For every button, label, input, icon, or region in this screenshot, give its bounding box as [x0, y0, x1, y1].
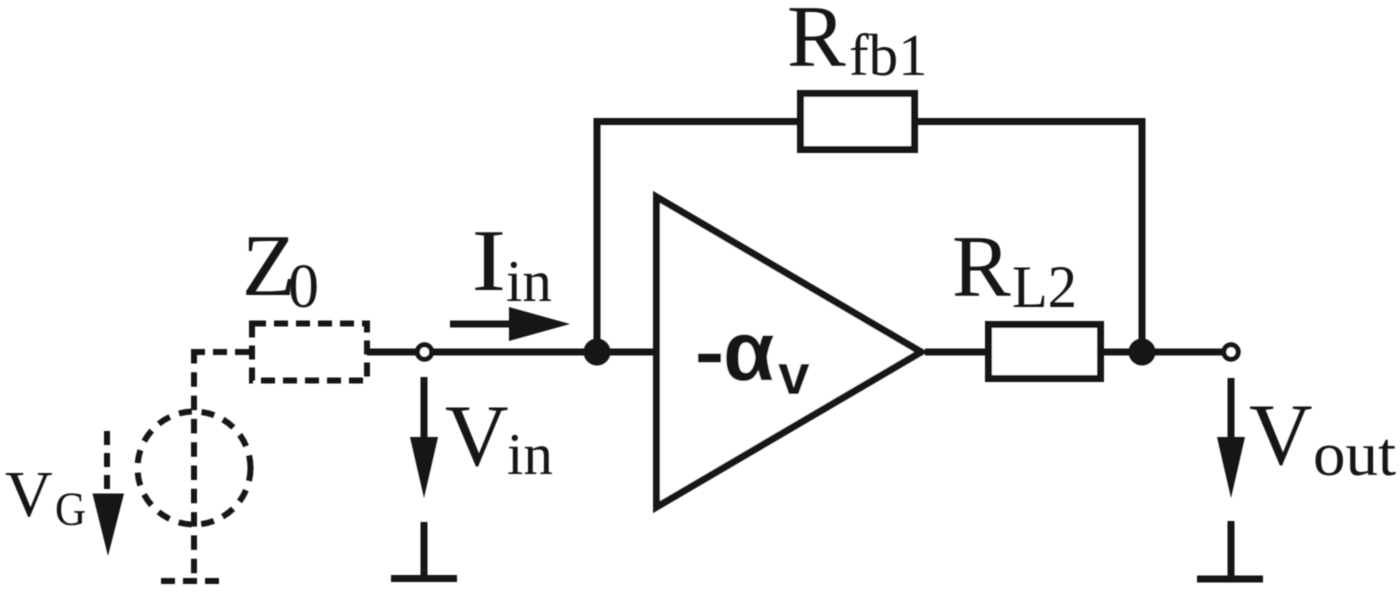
- svg-text:V: V: [5, 458, 53, 531]
- svg-text:fb1: fb1: [849, 22, 928, 88]
- svg-text:R: R: [952, 219, 1011, 316]
- svg-text:V: V: [445, 388, 509, 485]
- svg-text:0: 0: [288, 253, 319, 321]
- svg-text:I: I: [472, 211, 507, 309]
- svg-text:G: G: [55, 483, 86, 536]
- svg-text:L2: L2: [1012, 254, 1077, 320]
- svg-text:in: in: [507, 421, 553, 487]
- svg-text:α: α: [723, 304, 775, 398]
- svg-text:out: out: [1313, 421, 1396, 489]
- svg-text:v: v: [778, 343, 810, 407]
- svg-text:in: in: [506, 248, 552, 314]
- svg-text:R: R: [787, 0, 846, 86]
- svg-text:V: V: [1249, 387, 1313, 484]
